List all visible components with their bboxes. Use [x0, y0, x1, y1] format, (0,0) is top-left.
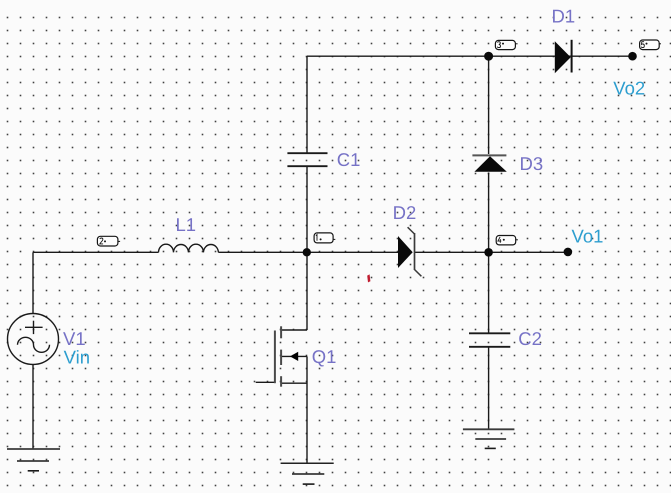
svg-text:C1: C1	[337, 149, 361, 170]
svg-text:L1: L1	[176, 214, 197, 235]
svg-text:C2: C2	[518, 328, 542, 349]
svg-text:Vo2: Vo2	[613, 78, 645, 99]
svg-text:D3: D3	[520, 153, 544, 174]
svg-text:Vo1: Vo1	[572, 225, 604, 246]
svg-text:Vin: Vin	[64, 347, 90, 368]
svg-text:D1: D1	[552, 6, 576, 27]
svg-text:Q1: Q1	[312, 346, 337, 367]
svg-text:D2: D2	[393, 202, 417, 223]
